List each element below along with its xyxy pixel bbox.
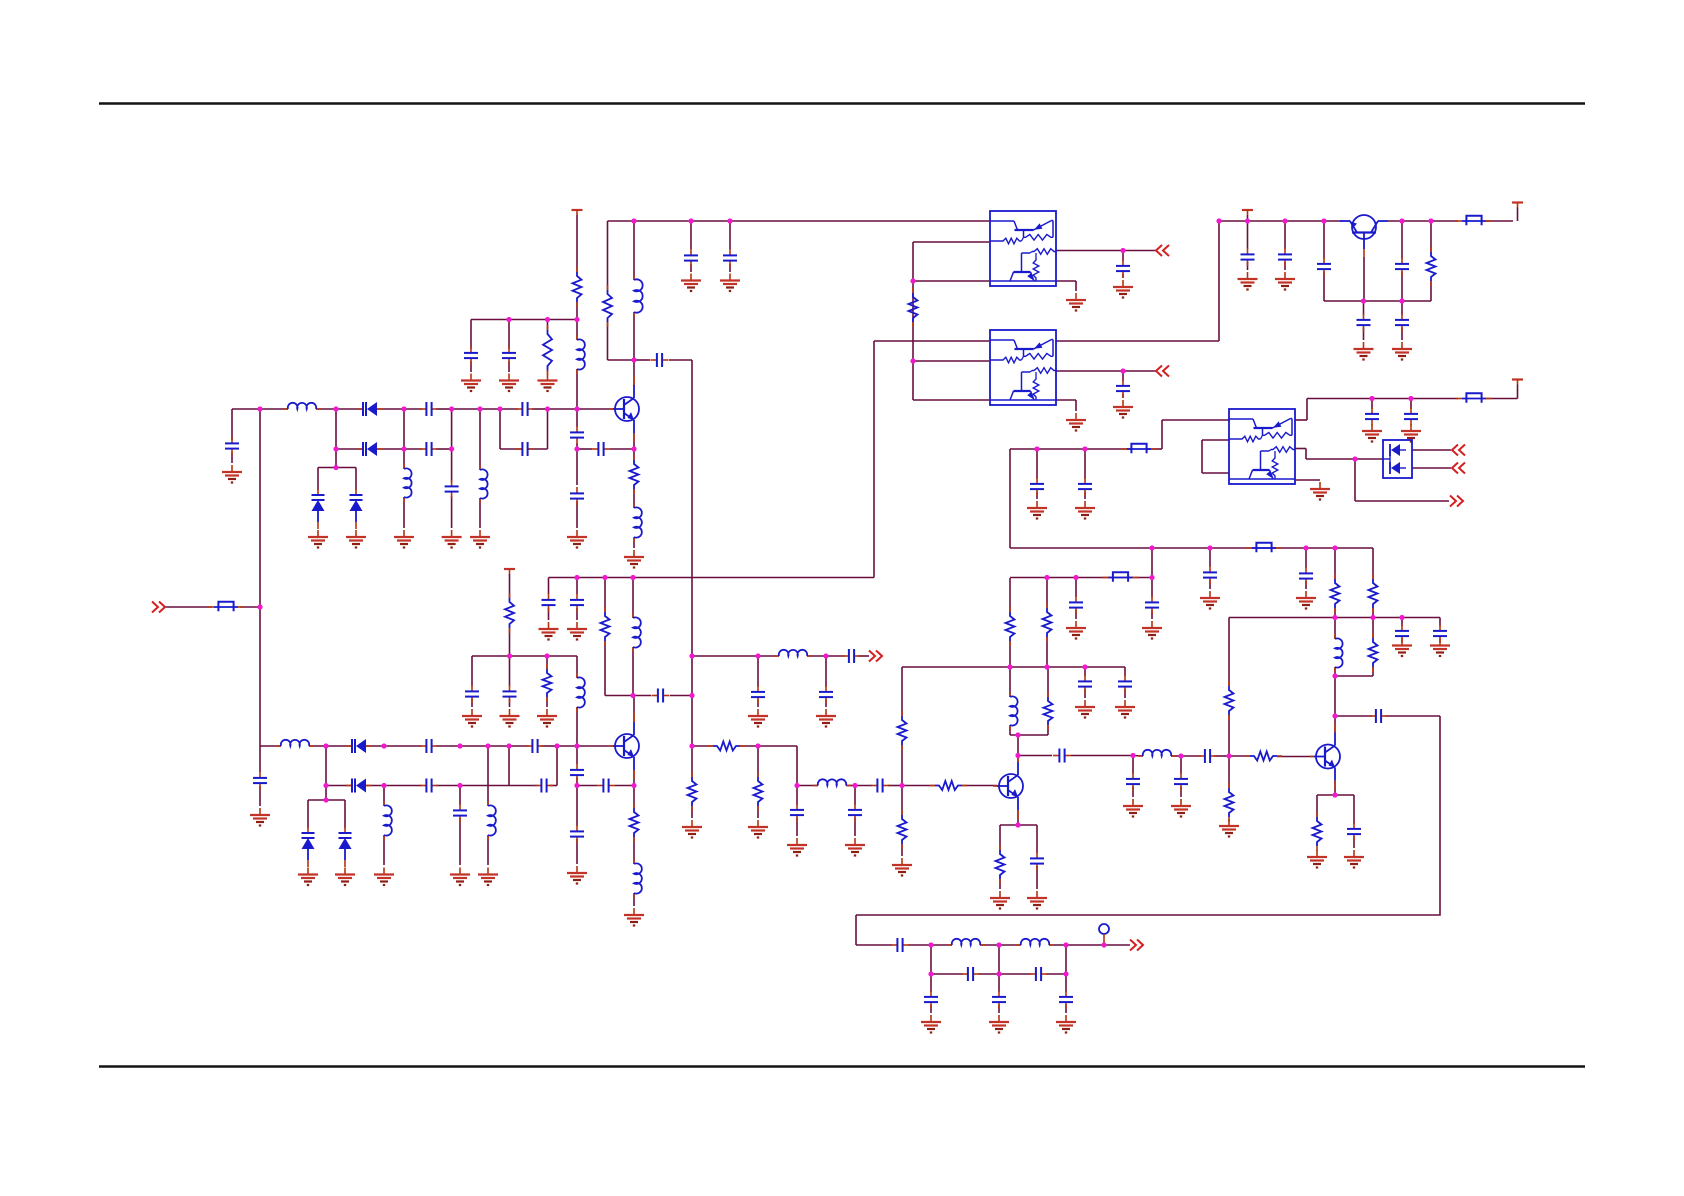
inductor L10 — [276, 740, 314, 746]
ground — [682, 820, 702, 838]
resistor R23 — [1369, 633, 1378, 672]
capacitor C29 — [751, 686, 765, 704]
IC dual-transistor U1 — [990, 211, 1056, 286]
node junction — [544, 653, 549, 658]
node junction — [401, 406, 406, 411]
wire — [1401, 301, 1403, 315]
ground — [1066, 293, 1086, 311]
wire — [633, 489, 635, 508]
wire — [335, 409, 337, 468]
wire — [633, 696, 635, 723]
wire — [691, 806, 693, 818]
wire — [576, 443, 578, 449]
wire — [1401, 618, 1403, 627]
wire — [1430, 221, 1432, 252]
node junction — [333, 406, 338, 411]
wire — [1046, 637, 1048, 667]
wire — [260, 408, 288, 410]
resistor R22 — [1369, 574, 1378, 613]
wire — [403, 449, 405, 469]
wire — [998, 1005, 1000, 1014]
node junction — [1015, 753, 1020, 758]
resistor R13 — [898, 711, 907, 750]
border line bottom — [99, 1065, 1585, 1068]
node junction — [689, 653, 694, 658]
wire — [854, 818, 856, 837]
wire — [615, 785, 634, 787]
node junction — [323, 797, 328, 802]
wire — [1517, 213, 1519, 221]
connector TU2 « — [1452, 463, 1465, 474]
wire — [509, 656, 511, 686]
capacitor C1 — [420, 402, 438, 416]
ground — [1430, 639, 1450, 657]
wire — [1075, 610, 1077, 619]
wire — [633, 770, 635, 786]
ground — [1142, 621, 1162, 639]
wire — [231, 452, 233, 463]
wire — [1295, 448, 1306, 450]
resistor R19 — [1225, 681, 1234, 720]
wire — [690, 264, 692, 272]
wire — [557, 745, 577, 747]
capacitor C56 — [1116, 380, 1130, 398]
ground — [1296, 591, 1316, 609]
wire — [1401, 272, 1403, 302]
wire — [999, 825, 1001, 850]
capacitor C36 — [1030, 852, 1044, 870]
wire — [377, 448, 404, 450]
wire — [1372, 618, 1374, 639]
wire — [260, 745, 281, 747]
capacitor C15 — [542, 594, 556, 612]
node junction — [794, 783, 799, 788]
wire — [908, 944, 931, 946]
wire — [471, 656, 473, 686]
wire — [1047, 667, 1049, 697]
wire — [1162, 419, 1229, 421]
capacitor C59 — [1317, 258, 1331, 276]
node junction — [727, 218, 732, 223]
wire — [1122, 274, 1124, 279]
wire — [1214, 755, 1229, 757]
ground — [624, 908, 644, 926]
wire — [740, 745, 797, 747]
capacitor C26 — [535, 779, 553, 793]
ground — [538, 374, 558, 392]
wire — [500, 408, 518, 410]
capacitor C18 — [652, 689, 670, 703]
wire — [1047, 725, 1049, 735]
transistor Q1 — [609, 376, 639, 442]
ground — [1362, 424, 1382, 442]
wire — [1372, 548, 1374, 579]
wire — [1334, 548, 1336, 579]
node junction — [323, 743, 328, 748]
capacitor C5 — [445, 480, 459, 498]
node junction — [1015, 822, 1020, 827]
wire — [825, 656, 827, 687]
wire — [471, 319, 577, 321]
node junction — [381, 783, 386, 788]
inductor L17 — [1335, 634, 1343, 672]
wire — [1202, 472, 1229, 474]
wire — [383, 786, 385, 807]
wire — [1075, 281, 1077, 291]
capacitor C39 — [1145, 596, 1159, 614]
wire — [1353, 795, 1355, 824]
ferrite bead FB3 — [1246, 543, 1282, 552]
wire — [1334, 676, 1336, 716]
wire — [576, 369, 578, 409]
wire — [1124, 689, 1126, 698]
wire — [1354, 459, 1356, 501]
wire — [1431, 220, 1458, 222]
node junction — [545, 317, 550, 322]
wire — [547, 370, 549, 372]
wire — [913, 360, 989, 362]
wire — [541, 745, 557, 747]
node junction — [1082, 446, 1087, 451]
ground — [1401, 424, 1421, 442]
node junction — [631, 218, 636, 223]
wire — [1372, 667, 1374, 676]
resistor R27 — [505, 593, 514, 633]
capacitor C4 — [420, 442, 438, 456]
node junction — [928, 971, 933, 976]
capacitor C48 — [1347, 823, 1361, 841]
wire — [470, 320, 472, 350]
node junction — [1044, 575, 1049, 580]
node junction — [333, 465, 338, 470]
ground — [1354, 342, 1374, 360]
wire — [1123, 370, 1156, 372]
ground — [1027, 891, 1047, 909]
ground — [1056, 1015, 1076, 1033]
node junction — [545, 406, 550, 411]
node junction — [1408, 396, 1413, 401]
node junction — [1303, 545, 1308, 550]
wire — [1036, 492, 1038, 500]
wire — [1228, 715, 1230, 756]
ground — [720, 274, 740, 292]
resistor R5 — [601, 607, 610, 646]
capacitor C13 — [592, 442, 610, 456]
wire — [509, 745, 529, 747]
wire — [1075, 400, 1077, 411]
wire — [576, 746, 578, 764]
wire — [1132, 756, 1134, 775]
wire — [1323, 272, 1325, 302]
ferrite bead FB5 — [1121, 444, 1157, 453]
inductor L12 — [488, 801, 496, 840]
resistor R2 — [543, 325, 552, 375]
wire — [384, 745, 422, 747]
wire — [1133, 755, 1143, 758]
node junction — [1332, 713, 1337, 718]
node junction — [689, 693, 694, 698]
wire — [528, 448, 548, 450]
wire — [452, 408, 500, 410]
node junction — [1332, 673, 1337, 678]
wire — [855, 915, 857, 945]
wire — [1229, 617, 1440, 619]
wire — [1017, 756, 1019, 763]
wire — [980, 944, 999, 946]
node junction — [506, 317, 511, 322]
capacitor C43 — [1126, 773, 1140, 791]
wire — [1084, 492, 1086, 500]
node junction — [401, 446, 406, 451]
wire — [796, 786, 798, 806]
wire — [1316, 795, 1318, 817]
node junction — [1044, 664, 1049, 669]
wire — [999, 973, 1031, 975]
wire — [1010, 734, 1048, 736]
wire — [383, 835, 385, 865]
wire — [550, 785, 557, 787]
wire — [1071, 755, 1133, 757]
capacitor C23 — [526, 739, 544, 753]
wire — [902, 666, 1125, 668]
wire — [998, 974, 1000, 992]
ground — [308, 530, 328, 548]
wire — [577, 448, 592, 450]
node junction — [631, 446, 636, 451]
wire — [1201, 440, 1203, 473]
ground — [537, 709, 557, 727]
capacitor C60 — [1357, 314, 1371, 332]
wire — [1247, 262, 1249, 270]
wire — [1056, 370, 1123, 372]
wire — [1353, 837, 1355, 849]
ground — [921, 1015, 941, 1033]
wire — [901, 844, 903, 856]
wire — [1151, 578, 1153, 598]
resistor R25 — [909, 288, 918, 327]
ground — [335, 868, 355, 886]
varactor diode D6 — [302, 827, 315, 867]
wire — [1056, 280, 1076, 282]
wire — [607, 221, 609, 290]
capacitor C58 — [1278, 248, 1292, 266]
wire — [451, 409, 453, 482]
capacitor C27 — [453, 804, 467, 822]
capacitor C55 — [1116, 260, 1130, 278]
ground — [1392, 342, 1412, 360]
node junction — [755, 653, 760, 658]
ground — [845, 838, 865, 856]
ground — [499, 374, 519, 392]
wire — [962, 785, 997, 787]
capacitor C44 — [1174, 773, 1188, 791]
node junction — [1101, 942, 1106, 947]
wire — [913, 241, 989, 243]
wire — [1017, 735, 1019, 756]
node junction — [1007, 664, 1012, 669]
resistor R14 — [1044, 692, 1053, 730]
ground — [442, 530, 462, 548]
ground — [298, 868, 318, 886]
capacitor C10 — [723, 249, 737, 267]
node junction — [1207, 545, 1212, 550]
node junction — [688, 218, 693, 223]
wire — [874, 340, 989, 342]
wire — [931, 973, 963, 975]
wire — [326, 745, 352, 747]
wire — [1247, 221, 1249, 249]
resistor R17 — [996, 845, 1005, 884]
node junction — [899, 783, 904, 788]
wire — [1323, 221, 1325, 259]
ground — [478, 868, 498, 886]
wire — [1305, 581, 1307, 589]
node junction — [602, 575, 607, 580]
capacitor C40 — [1203, 566, 1217, 584]
wire — [1122, 371, 1124, 381]
transistor Q3 — [993, 753, 1023, 819]
ground — [374, 868, 394, 886]
wire — [377, 408, 404, 410]
ground — [222, 465, 242, 483]
wire — [1229, 755, 1250, 757]
wire — [826, 655, 845, 657]
capacitor C34 — [1078, 675, 1092, 693]
resistor R15 — [1006, 607, 1015, 646]
resistor R1 — [573, 267, 582, 307]
varactor diode D7 — [339, 827, 352, 867]
ground — [470, 530, 490, 548]
capacitor C45 — [1395, 625, 1409, 643]
node junction — [1082, 664, 1087, 669]
ferrite bead FB2 — [1103, 572, 1139, 581]
node junction — [996, 942, 1001, 947]
wire — [479, 409, 481, 470]
ground — [989, 1015, 1009, 1033]
ground — [1066, 413, 1086, 431]
wire — [1046, 578, 1048, 609]
wire — [509, 628, 511, 656]
node junction — [1149, 545, 1154, 550]
wire — [1277, 756, 1314, 758]
wire — [1049, 944, 1066, 946]
wire — [1065, 974, 1067, 992]
wire — [1363, 301, 1365, 315]
wire — [1363, 257, 1365, 301]
wire — [912, 242, 914, 400]
wire — [1122, 251, 1124, 262]
wire — [1075, 578, 1077, 598]
wire — [460, 785, 509, 787]
wire — [309, 745, 326, 747]
wire — [692, 745, 713, 747]
wire — [509, 785, 538, 787]
wire — [1305, 449, 1307, 460]
resistor R9 — [708, 742, 745, 751]
wire — [508, 746, 510, 786]
wire — [577, 785, 597, 787]
ground — [1238, 272, 1258, 290]
wire — [846, 785, 855, 787]
wire — [436, 408, 452, 410]
ground — [567, 622, 587, 640]
node junction — [910, 358, 915, 363]
wire — [633, 537, 635, 548]
node junction — [1321, 218, 1326, 223]
capacitor C21 — [570, 825, 584, 843]
wire — [576, 839, 578, 864]
varactor diode D3 — [312, 489, 325, 529]
capacitor C12 — [570, 426, 584, 444]
wire — [1228, 618, 1230, 687]
wire — [1009, 725, 1011, 735]
inductor L7 — [633, 613, 641, 652]
wire — [1305, 548, 1307, 568]
capacitor C2 — [516, 402, 534, 416]
resistor R21 — [1331, 574, 1340, 613]
power VCC5 — [504, 569, 515, 580]
wire — [1284, 221, 1286, 249]
resistor R26 — [1427, 247, 1436, 286]
wire — [317, 468, 319, 491]
capacitor C41 — [1299, 567, 1313, 585]
connector test point — [1099, 924, 1109, 943]
wire — [259, 746, 261, 772]
wire — [691, 746, 693, 777]
wire — [404, 448, 422, 450]
inductor L5 — [634, 275, 643, 317]
ground — [748, 820, 768, 838]
wire — [316, 408, 363, 410]
capacitor C42 — [1199, 749, 1217, 763]
wire — [1056, 250, 1123, 252]
wire — [1180, 756, 1182, 774]
wire — [1132, 787, 1134, 798]
wire — [930, 945, 932, 974]
power VCC4 — [1512, 380, 1523, 391]
node junction — [1178, 753, 1183, 758]
wire — [436, 785, 460, 787]
diode D5 — [346, 739, 372, 753]
capacitor C22 — [420, 739, 438, 753]
wire — [604, 578, 606, 613]
wire — [404, 408, 422, 410]
wire — [757, 806, 759, 818]
wire — [1209, 580, 1211, 589]
resistor R8 — [688, 772, 697, 811]
capacitor C17 — [503, 685, 517, 703]
wire — [1123, 250, 1156, 252]
wire — [797, 785, 818, 787]
wire — [901, 667, 903, 716]
ground — [1200, 591, 1220, 609]
resistor R7 — [630, 803, 639, 842]
diode D1 — [357, 402, 383, 416]
wire — [1385, 715, 1440, 717]
wire — [1335, 715, 1372, 717]
node junction — [449, 446, 454, 451]
node junction — [574, 446, 579, 451]
capacitor C53 — [992, 991, 1006, 1009]
wire — [403, 497, 405, 528]
wire — [1307, 398, 1458, 400]
IC dual-transistor U3 — [1229, 409, 1295, 484]
node junction — [823, 653, 828, 658]
wire — [632, 647, 634, 696]
wire — [607, 322, 609, 360]
node junction — [574, 406, 579, 411]
connector AGC2 « — [1156, 366, 1169, 377]
